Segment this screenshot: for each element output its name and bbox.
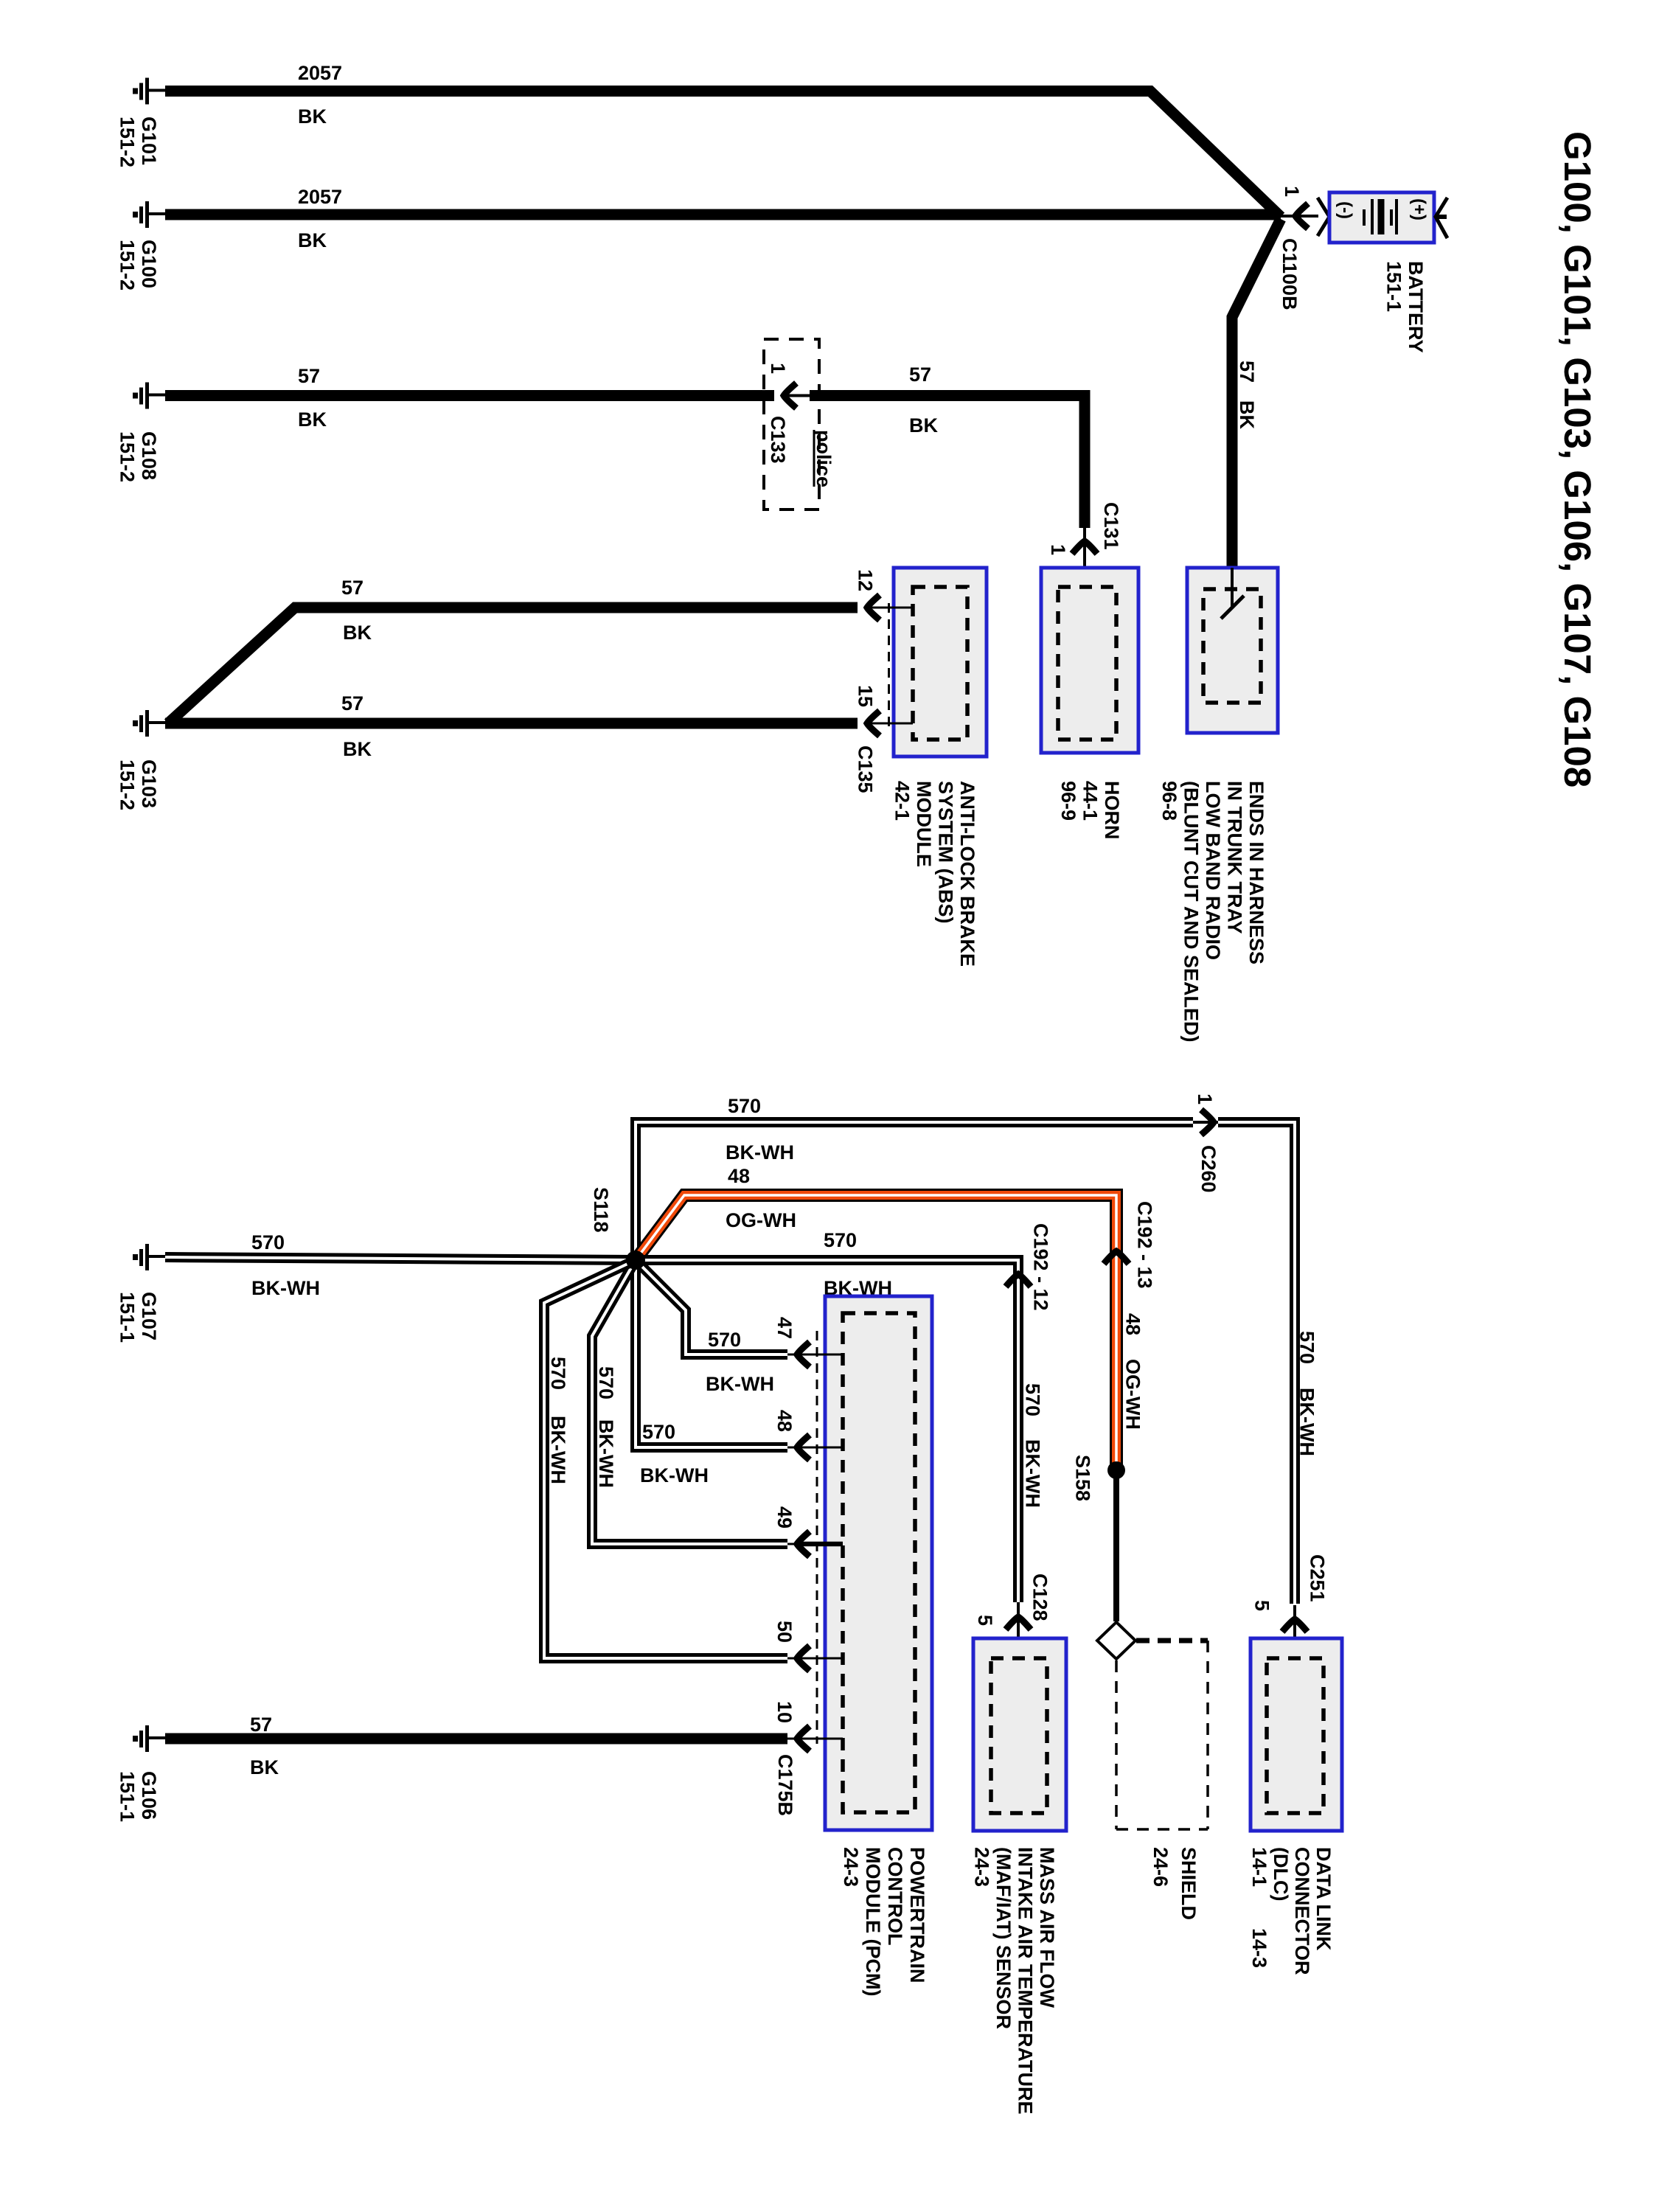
svg-text:BK: BK — [343, 738, 372, 760]
svg-text:C251: C251 — [1307, 1554, 1329, 1602]
svg-text:570: 570 — [1022, 1383, 1044, 1416]
svg-text:47: 47 — [773, 1317, 796, 1339]
svg-text:CONTROL: CONTROL — [884, 1847, 906, 1945]
svg-text:BK-WH: BK-WH — [1296, 1388, 1318, 1456]
svg-text:12: 12 — [855, 569, 877, 591]
svg-text:BATTERY: BATTERY — [1405, 261, 1427, 353]
svg-text:C131: C131 — [1100, 502, 1122, 550]
svg-text:BK-WH: BK-WH — [251, 1277, 320, 1299]
svg-text:DATA LINK: DATA LINK — [1312, 1847, 1335, 1951]
svg-text:2057: 2057 — [298, 186, 342, 208]
svg-text:OG-WH: OG-WH — [1122, 1359, 1144, 1430]
svg-text:57: 57 — [341, 577, 364, 599]
svg-text:BK: BK — [298, 105, 327, 128]
svg-text:57: 57 — [909, 364, 931, 386]
svg-text:57: 57 — [341, 692, 364, 714]
svg-text:570: 570 — [547, 1357, 569, 1390]
svg-text:14-3: 14-3 — [1248, 1928, 1270, 1968]
svg-text:1: 1 — [1047, 544, 1069, 555]
svg-text:G100, G101, G103, G106, G107,: G100, G101, G103, G106, G107, G108 — [1557, 131, 1599, 787]
svg-text:151-2: 151-2 — [116, 240, 139, 291]
svg-text:151-1: 151-1 — [116, 1771, 139, 1822]
svg-text:151-2: 151-2 — [116, 116, 139, 167]
svg-text:48: 48 — [773, 1410, 796, 1432]
svg-text:570: 570 — [1296, 1331, 1318, 1364]
svg-text:HORN: HORN — [1101, 781, 1123, 840]
svg-text:MASS AIR FLOW: MASS AIR FLOW — [1036, 1847, 1058, 2008]
svg-text:(-): (-) — [1335, 201, 1355, 219]
svg-text:570: 570 — [251, 1231, 285, 1253]
svg-text:BK-WH: BK-WH — [640, 1464, 709, 1486]
svg-text:42-1: 42-1 — [891, 781, 914, 821]
svg-text:BK: BK — [298, 229, 327, 251]
svg-text:50: 50 — [773, 1621, 796, 1643]
svg-text:24-3: 24-3 — [971, 1847, 993, 1887]
svg-text:570: 570 — [642, 1421, 675, 1443]
svg-text:49: 49 — [773, 1506, 796, 1528]
svg-text:C133: C133 — [767, 416, 789, 464]
svg-text:C128: C128 — [1029, 1573, 1051, 1621]
svg-text:BK-WH: BK-WH — [1022, 1439, 1044, 1508]
svg-text:C175B: C175B — [774, 1754, 796, 1816]
svg-text:5: 5 — [1251, 1600, 1273, 1611]
svg-text:57: 57 — [1236, 361, 1258, 383]
svg-text:C192 - 12: C192 - 12 — [1030, 1223, 1052, 1311]
svg-text:24-3: 24-3 — [840, 1847, 862, 1887]
svg-text:INTAKE AIR TEMPERATURE: INTAKE AIR TEMPERATURE — [1015, 1847, 1037, 2115]
svg-text:14-1: 14-1 — [1248, 1847, 1270, 1887]
svg-text:151-1: 151-1 — [116, 1292, 139, 1343]
svg-text:570: 570 — [708, 1329, 741, 1351]
svg-text:1: 1 — [1194, 1093, 1216, 1105]
svg-text:(MAF/IAT) SENSOR: (MAF/IAT) SENSOR — [992, 1847, 1015, 2029]
svg-text:C135: C135 — [855, 745, 877, 793]
svg-text:G106: G106 — [138, 1771, 160, 1820]
svg-text:police: police — [813, 430, 835, 487]
svg-text:C192 - 13: C192 - 13 — [1134, 1201, 1156, 1289]
svg-text:C1100B: C1100B — [1279, 238, 1301, 310]
svg-text:MODULE (PCM): MODULE (PCM) — [862, 1847, 884, 1996]
svg-text:151-2: 151-2 — [116, 431, 139, 482]
svg-text:CONNECTOR: CONNECTOR — [1291, 1847, 1313, 1975]
svg-text:BK-WH: BK-WH — [726, 1141, 794, 1164]
svg-text:24-6: 24-6 — [1150, 1847, 1172, 1887]
svg-text:57: 57 — [298, 365, 320, 387]
svg-text:2057: 2057 — [298, 62, 342, 84]
svg-text:ANTI-LOCK BRAKE: ANTI-LOCK BRAKE — [956, 781, 978, 967]
svg-text:BK-WH: BK-WH — [547, 1416, 569, 1484]
svg-text:ENDS IN HARNESS: ENDS IN HARNESS — [1245, 781, 1267, 964]
svg-text:1: 1 — [767, 363, 789, 374]
svg-text:151-2: 151-2 — [116, 759, 139, 810]
svg-text:SYSTEM (ABS): SYSTEM (ABS) — [935, 781, 957, 924]
svg-text:BK-WH: BK-WH — [706, 1373, 774, 1395]
svg-text:G101: G101 — [138, 116, 160, 165]
svg-text:OG-WH: OG-WH — [726, 1209, 796, 1231]
svg-text:1: 1 — [1281, 186, 1303, 197]
svg-text:POWERTRAIN: POWERTRAIN — [906, 1847, 928, 1983]
svg-text:G108: G108 — [138, 431, 160, 480]
svg-text:48: 48 — [728, 1165, 750, 1187]
svg-text:MODULE: MODULE — [913, 781, 935, 867]
svg-text:BK: BK — [1236, 400, 1258, 429]
svg-text:BK: BK — [909, 414, 938, 437]
svg-text:44-1: 44-1 — [1079, 781, 1102, 821]
svg-text:G107: G107 — [138, 1292, 160, 1340]
svg-text:96-9: 96-9 — [1057, 781, 1079, 821]
svg-text:570: 570 — [595, 1366, 617, 1399]
svg-text:G103: G103 — [138, 759, 160, 808]
svg-text:BK: BK — [343, 622, 372, 644]
svg-text:BK: BK — [298, 408, 327, 431]
svg-text:10: 10 — [773, 1701, 796, 1723]
svg-text:BK-WH: BK-WH — [595, 1419, 617, 1488]
svg-text:(DLC): (DLC) — [1270, 1847, 1292, 1901]
svg-text:(BLUNT CUT AND SEALED): (BLUNT CUT AND SEALED) — [1180, 781, 1203, 1042]
svg-text:SHIELD: SHIELD — [1178, 1847, 1200, 1920]
svg-text:BK: BK — [250, 1756, 279, 1778]
svg-text:C260: C260 — [1197, 1145, 1220, 1193]
svg-text:57: 57 — [250, 1714, 272, 1736]
svg-text:151-1: 151-1 — [1383, 261, 1405, 312]
svg-text:570: 570 — [728, 1095, 761, 1117]
svg-text:S118: S118 — [590, 1187, 612, 1233]
svg-text:5: 5 — [974, 1615, 996, 1626]
svg-text:15: 15 — [855, 685, 877, 707]
svg-text:96-8: 96-8 — [1158, 781, 1180, 821]
svg-text:570: 570 — [824, 1229, 857, 1251]
svg-text:48: 48 — [1122, 1313, 1144, 1335]
svg-text:G100: G100 — [138, 240, 160, 288]
svg-text:IN TRUNK TRAY: IN TRUNK TRAY — [1224, 781, 1246, 934]
svg-text:LOW BAND RADIO: LOW BAND RADIO — [1202, 781, 1224, 960]
svg-text:(+): (+) — [1409, 198, 1429, 220]
svg-text:S158: S158 — [1072, 1455, 1094, 1501]
